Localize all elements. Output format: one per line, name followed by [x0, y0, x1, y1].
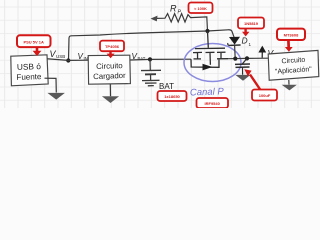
node capacitor junction dot	[245, 56, 249, 60]
callout 100uF with red pointer	[244, 69, 277, 100]
arrow Vo voltage indicator	[261, 52, 263, 58]
node gate junction dot	[205, 29, 209, 33]
callout resistor value	[189, 3, 213, 14]
svg-text:USB: USB	[56, 54, 65, 59]
node VUSB junction dot	[66, 58, 70, 62]
svg-text:≈ 100K: ≈ 100K	[194, 6, 207, 11]
svg-text:PSU 5V 1A: PSU 5V 1A	[23, 40, 44, 45]
svg-text:USB ó: USB ó	[17, 61, 42, 72]
ground under capacitor	[236, 75, 249, 80]
wire VBAT rail to transistor	[130, 58, 191, 61]
svg-text:100uF: 100uF	[259, 93, 271, 98]
transistor Q1 PMOS symbol	[191, 31, 228, 67]
svg-text:Fuente: Fuente	[16, 72, 42, 82]
box Circuito Aplicacion	[268, 50, 319, 80]
svg-text:BAT: BAT	[138, 56, 146, 61]
svg-text:Canal P: Canal P	[190, 86, 225, 98]
resistor RP	[157, 14, 208, 31]
resistor RP value label	[170, 4, 182, 16]
capacitor C1	[235, 58, 250, 74]
svg-text:IRF9540: IRF9540	[205, 101, 221, 106]
callout TP4056	[100, 41, 124, 59]
svg-text:Cargador: Cargador	[93, 71, 126, 81]
wire VUSB node to gate rail (vertical + wavy horizontal)	[69, 31, 208, 61]
wire VUSB horizontal	[45, 59, 88, 61]
resistor RP left arrowhead (net connector to VUSB)	[151, 16, 158, 22]
svg-text:D: D	[242, 36, 248, 46]
node VBAT junction dot	[148, 57, 152, 61]
callout PSU 5V 1A	[17, 35, 51, 56]
ground under app box	[288, 80, 290, 85]
transistor body arrow	[203, 64, 213, 71]
svg-text:IN: IN	[84, 56, 88, 61]
label VUSB	[50, 49, 66, 59]
label Vo	[268, 48, 278, 59]
svg-text:Circuito: Circuito	[96, 61, 123, 71]
svg-text:1N5819: 1N5819	[244, 21, 259, 26]
label VBAT	[132, 52, 146, 61]
svg-text:1x18650: 1x18650	[164, 94, 180, 99]
box USB o Fuente	[11, 55, 48, 86]
transistor Q1 circle	[184, 44, 241, 82]
wire gate rail to diode top	[208, 30, 234, 37]
wire USB box to ground	[45, 78, 57, 92]
node diode junction dot	[233, 57, 237, 61]
label VIN	[78, 52, 88, 61]
ground under USB box	[48, 93, 64, 99]
diode D1	[228, 37, 241, 59]
wire drain rail to app box	[228, 57, 268, 60]
box Circuito Cargador	[88, 55, 130, 84]
svg-text:BAT: BAT	[159, 82, 174, 91]
svg-text:MT3608: MT3608	[284, 33, 299, 38]
battery BAT	[141, 59, 161, 80]
label D1	[242, 36, 252, 48]
callout IRF9540	[197, 98, 229, 108]
ground under battery	[142, 80, 160, 86]
ground under Cargador	[109, 84, 111, 96]
callout diode	[238, 18, 264, 37]
callout MT3608	[277, 29, 305, 52]
svg-text:TP4056: TP4056	[105, 44, 120, 49]
callout 1x18650	[158, 91, 187, 101]
svg-text:R: R	[170, 4, 177, 14]
